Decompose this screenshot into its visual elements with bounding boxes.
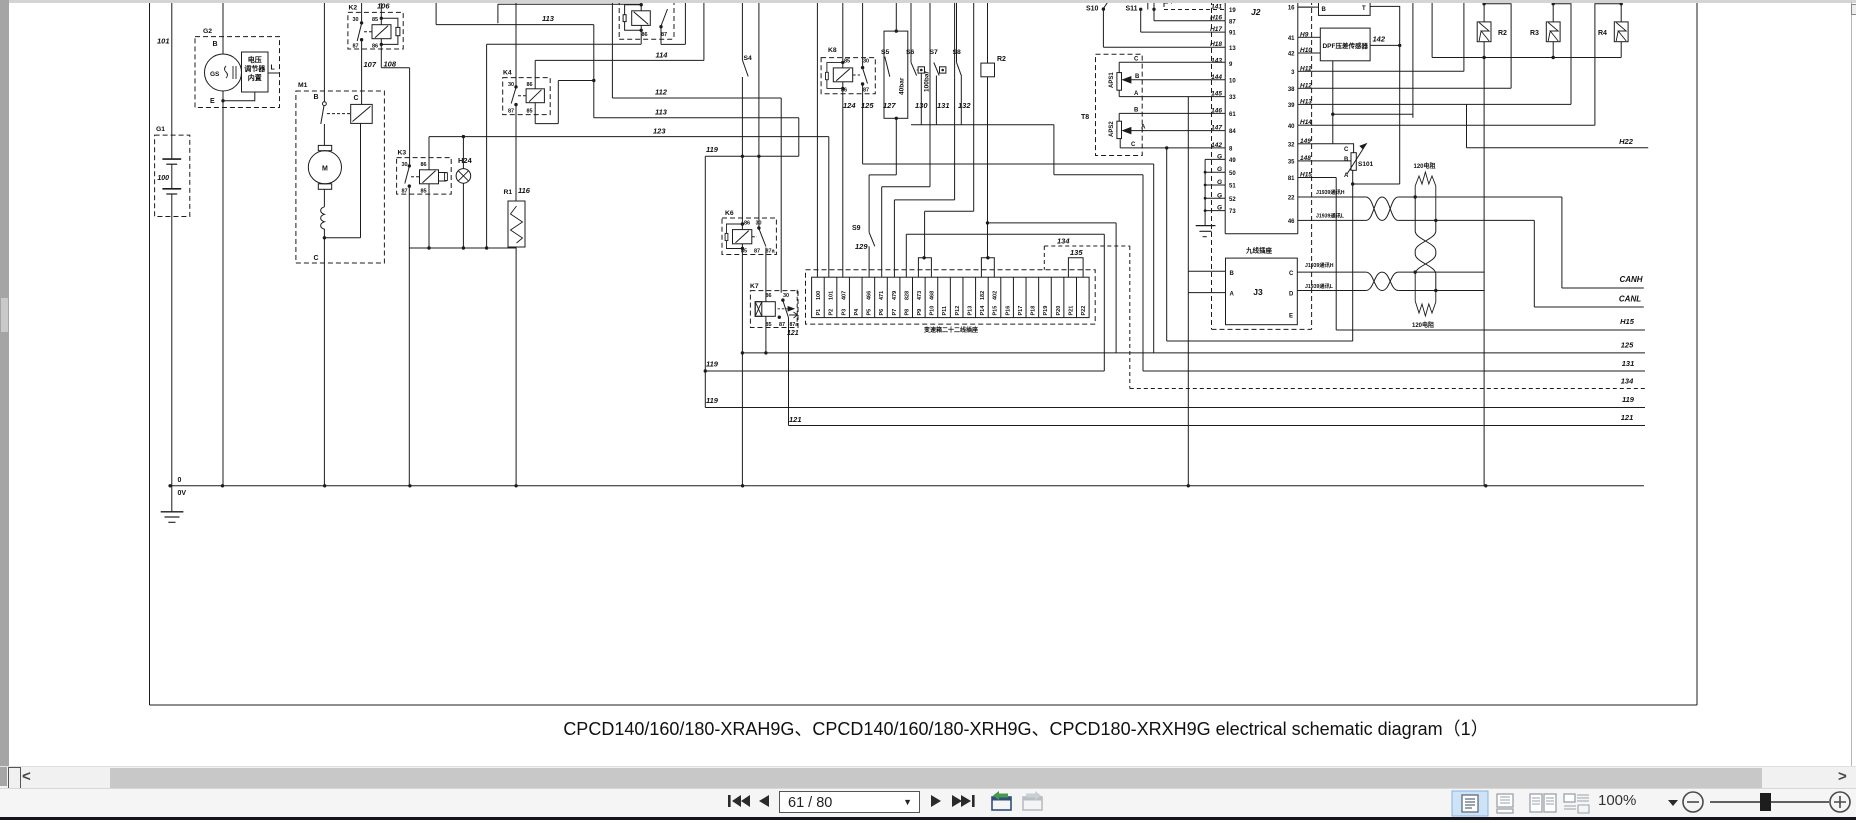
relay K6 switch bbox=[758, 156, 760, 228]
svg-text:41: 41 bbox=[1288, 36, 1295, 42]
wire S6 down bbox=[920, 73, 922, 125]
junction on 0V bus bbox=[1187, 484, 1190, 487]
svg-text:调节器: 调节器 bbox=[244, 64, 266, 73]
svg-text:116: 116 bbox=[518, 186, 531, 195]
J2 pin 3 stub bbox=[1298, 70, 1313, 72]
wire alternator E down to bus bbox=[222, 91, 224, 486]
svg-text:J1939通讯H: J1939通讯H bbox=[1305, 261, 1334, 269]
wire switch to motor bbox=[323, 124, 325, 145]
svg-text:100: 100 bbox=[157, 175, 169, 182]
terminating resistor 120ohm upper bbox=[1415, 172, 1436, 220]
connector cell divider bbox=[1050, 277, 1052, 317]
connector cell divider bbox=[975, 277, 977, 317]
wire jog down bbox=[1053, 125, 1055, 175]
connector cell divider bbox=[1038, 277, 1040, 317]
svg-text:P18: P18 bbox=[1031, 306, 1037, 316]
relay K3 switch bbox=[408, 164, 411, 167]
row pin81 H15 to right edge bbox=[1313, 177, 1336, 179]
svg-text:30: 30 bbox=[402, 162, 408, 168]
svg-text:61: 61 bbox=[1229, 112, 1236, 118]
riser 119 left bbox=[704, 156, 706, 407]
wire 107 to starter contactor bbox=[361, 40, 363, 105]
resistor R2 bbox=[1477, 22, 1491, 42]
resistor R4 wire bottom bbox=[1620, 42, 1622, 58]
CAN twist 2 bbox=[1366, 272, 1398, 290]
pressure switch 40bar box bbox=[884, 31, 908, 118]
line 119 second bbox=[705, 370, 1104, 372]
svg-text:K4: K4 bbox=[503, 70, 512, 77]
battery G1 cell1 plates bbox=[162, 158, 181, 160]
J3 CAN pair cont bbox=[1398, 271, 1484, 273]
svg-text:0: 0 bbox=[178, 477, 182, 484]
line 113 upper bbox=[435, 0, 437, 25]
APS2 potentiometer bbox=[1117, 121, 1122, 138]
line 125 right end bbox=[1188, 340, 1352, 342]
wire 106 from top bbox=[380, 0, 382, 18]
link to riser 1412 bbox=[1333, 113, 1413, 115]
relay K4 coil bbox=[526, 89, 544, 103]
sensor S101 arrow bbox=[1347, 149, 1363, 174]
svg-text:142: 142 bbox=[1373, 35, 1386, 44]
svg-text:变速箱二十二线插座: 变速箱二十二线插座 bbox=[924, 326, 978, 334]
svg-text:107: 107 bbox=[364, 60, 377, 69]
switch S10 bbox=[1102, 7, 1105, 10]
wire 758.9 from top bbox=[758, 0, 760, 156]
svg-text:46: 46 bbox=[1288, 219, 1295, 225]
svg-text:J1939通讯L: J1939通讯L bbox=[1316, 211, 1345, 219]
connector cell divider bbox=[836, 277, 838, 317]
lamp H24 bbox=[456, 169, 471, 184]
svg-text:22: 22 bbox=[1288, 196, 1295, 202]
APS1 wiper B to J2 pin 10 bbox=[1123, 77, 1132, 83]
svg-text:40: 40 bbox=[1288, 124, 1295, 130]
svg-text:C: C bbox=[354, 95, 359, 102]
wire to P1 from top bbox=[816, 0, 818, 277]
relay K1 coil bbox=[632, 11, 651, 26]
svg-text:87: 87 bbox=[754, 249, 760, 255]
line H15 long bbox=[1336, 329, 1645, 331]
connector cell divider bbox=[937, 277, 939, 317]
CANL step down bbox=[1533, 220, 1535, 307]
wire from T sensor bbox=[1370, 6, 1400, 184]
pressure sensor S7 box bbox=[940, 67, 946, 73]
line 131 right bbox=[1143, 370, 1645, 372]
socket J3 box bbox=[1226, 258, 1298, 325]
svg-text:K2: K2 bbox=[349, 5, 358, 12]
svg-text:87a: 87a bbox=[790, 322, 799, 328]
svg-text:473: 473 bbox=[917, 291, 923, 300]
line to bundle right 222 bbox=[988, 222, 1117, 224]
connector cell divider bbox=[1075, 277, 1077, 317]
wire from top 954 bbox=[954, 0, 956, 200]
svg-text:100: 100 bbox=[816, 291, 822, 300]
connector cell divider bbox=[874, 277, 876, 317]
relay K7 switch with arrow bbox=[781, 298, 784, 301]
svg-text:E: E bbox=[210, 98, 215, 105]
starter motor M bbox=[318, 145, 331, 150]
relay K1 switch bbox=[659, 25, 662, 28]
wire S9 to connector P5 bbox=[868, 246, 870, 277]
link 142 wire to S101 column bbox=[1353, 183, 1400, 185]
local bus under K3 bbox=[409, 247, 516, 249]
svg-text:S11: S11 bbox=[1126, 6, 1138, 13]
relay K4 box bbox=[503, 78, 551, 115]
wire K3-87 down bbox=[408, 186, 410, 248]
continuation bracket left of connector bbox=[796, 290, 798, 322]
svg-text:828: 828 bbox=[904, 291, 910, 300]
row pin3 H11 long bbox=[1313, 70, 1464, 72]
line from S6 S7 S8 to right bbox=[911, 124, 1054, 126]
wire B into alternator bbox=[222, 0, 224, 54]
svg-text:P7: P7 bbox=[892, 309, 898, 316]
wire from top to K4-30 bbox=[515, 0, 517, 87]
junction on 0V bus bbox=[408, 484, 411, 487]
switch S5 blade bbox=[885, 57, 890, 77]
svg-text:120电阻: 120电阻 bbox=[1412, 321, 1434, 329]
svg-text:K8: K8 bbox=[828, 47, 837, 54]
svg-text:131: 131 bbox=[1622, 359, 1635, 368]
DPF bottom wire bbox=[1332, 61, 1334, 144]
svg-text:146: 146 bbox=[1211, 107, 1222, 114]
svg-text:J1939通讯H: J1939通讯H bbox=[1316, 188, 1345, 196]
svg-text:A: A bbox=[1134, 91, 1139, 97]
J2 pin 41 stub bbox=[1298, 36, 1313, 38]
connector cell divider bbox=[848, 277, 850, 317]
svg-text:P22: P22 bbox=[1081, 306, 1087, 316]
svg-text:119: 119 bbox=[706, 360, 719, 369]
riser 1116 from line 222 bbox=[1115, 223, 1117, 353]
svg-text:468: 468 bbox=[930, 291, 936, 300]
resistor R1 bbox=[508, 201, 525, 247]
sensor S101 body bbox=[1351, 153, 1356, 171]
svg-text:40bar: 40bar bbox=[899, 77, 906, 95]
relay K2 coil feed bbox=[380, 17, 383, 20]
svg-text:P5: P5 bbox=[867, 309, 873, 316]
svg-text:GS: GS bbox=[210, 71, 220, 78]
wire S101 A down bbox=[1352, 170, 1354, 341]
svg-text:91: 91 bbox=[1229, 31, 1236, 37]
wire J2 pin35 to S101 B bbox=[1313, 160, 1351, 162]
relay K3 suppression resistor bbox=[439, 173, 447, 182]
svg-text:R2: R2 bbox=[997, 56, 1006, 63]
svg-text:132: 132 bbox=[958, 101, 971, 110]
wire K7-87 to 121 line bbox=[788, 318, 790, 426]
riser 1188 bbox=[1187, 97, 1189, 486]
connector cell divider bbox=[1012, 277, 1014, 317]
row pin38 H12 long bbox=[1313, 87, 1511, 89]
svg-text:T8: T8 bbox=[1081, 114, 1089, 121]
svg-text:100bar: 100bar bbox=[924, 71, 931, 92]
svg-text:49: 49 bbox=[1229, 158, 1236, 164]
voltage regulator box (Chinese: built-in regulator) bbox=[242, 52, 269, 92]
drawing frame left border bbox=[149, 3, 151, 705]
relay K2 pin 30 wire bbox=[361, 0, 363, 23]
svg-text:电压: 电压 bbox=[248, 55, 262, 64]
svg-text:16: 16 bbox=[1288, 6, 1295, 12]
drawing frame bottom border bbox=[150, 704, 1698, 706]
connector cell divider bbox=[1025, 277, 1027, 317]
svg-text:R1: R1 bbox=[504, 189, 513, 196]
transmission connector dashed box bbox=[806, 270, 1096, 324]
row pin40 H14 long bbox=[1313, 124, 1595, 126]
line 121 long bbox=[789, 425, 1646, 427]
svg-text:3: 3 bbox=[1291, 70, 1295, 76]
svg-text:73: 73 bbox=[1229, 209, 1236, 215]
line 119 top bbox=[705, 155, 799, 157]
resistor R3 bbox=[1546, 22, 1560, 42]
svg-text:30: 30 bbox=[863, 59, 869, 65]
bus risers bbox=[1431, 0, 1433, 58]
J2 pin 81 stub bbox=[1298, 177, 1313, 179]
svg-text:P12: P12 bbox=[955, 306, 961, 316]
svg-text:123: 123 bbox=[653, 127, 666, 136]
pressure sensor S6 box bbox=[918, 67, 924, 73]
junction on 0V bus bbox=[168, 484, 171, 487]
CAN vertical twist bbox=[1415, 197, 1436, 274]
dashed link switch-contactor bbox=[327, 113, 351, 115]
svg-text:B: B bbox=[213, 41, 218, 48]
svg-text:182: 182 bbox=[980, 291, 986, 300]
svg-text:125: 125 bbox=[861, 101, 874, 110]
svg-text:144: 144 bbox=[1211, 74, 1222, 81]
svg-text:87: 87 bbox=[508, 109, 514, 115]
svg-text:A: A bbox=[1141, 125, 1146, 131]
svg-text:P4: P4 bbox=[854, 308, 860, 316]
relay K6 coil bbox=[733, 230, 752, 244]
ground symbol bbox=[171, 486, 173, 512]
transmission connector body bbox=[812, 277, 1090, 317]
svg-text:P6: P6 bbox=[879, 309, 885, 316]
connector cell divider bbox=[1063, 277, 1065, 317]
svg-text:S5: S5 bbox=[881, 49, 890, 56]
connector bridge P21-P22 (135) bbox=[1068, 258, 1083, 277]
svg-text:S6: S6 bbox=[906, 49, 915, 56]
DPF differential pressure sensor box bbox=[1320, 28, 1370, 61]
relay K1 switch wire bbox=[660, 27, 662, 45]
svg-text:101: 101 bbox=[829, 291, 835, 300]
svg-text:T: T bbox=[1362, 6, 1366, 12]
svg-text:130: 130 bbox=[915, 101, 928, 110]
APS2 pin B wire to J2 pin 61 bbox=[1118, 113, 1120, 121]
svg-text:86: 86 bbox=[744, 221, 750, 227]
svg-text:51: 51 bbox=[1229, 184, 1236, 190]
relay K8 switch 125 bbox=[861, 66, 864, 69]
row pin39 H13 long bbox=[1313, 103, 1571, 105]
svg-text:R4: R4 bbox=[1598, 30, 1607, 37]
resistor R3 wire top bbox=[1552, 0, 1554, 22]
svg-text:P20: P20 bbox=[1056, 306, 1062, 316]
svg-text:479: 479 bbox=[892, 291, 898, 300]
svg-text:113: 113 bbox=[542, 14, 555, 23]
wire B to starter switch bbox=[323, 0, 325, 102]
resistor R4 bbox=[1614, 22, 1628, 42]
svg-text:84: 84 bbox=[1229, 129, 1236, 135]
connector bridge P9-P10 bbox=[918, 258, 931, 277]
wire R1 to 0V bus bbox=[515, 247, 517, 486]
J2 ground pins common bbox=[1205, 158, 1225, 160]
svg-text:P13: P13 bbox=[967, 306, 973, 316]
APS1 pin C wire to J2 pin 9 bbox=[1118, 62, 1120, 72]
wire starter to contactor bbox=[324, 237, 360, 239]
APS1 potentiometer bbox=[1117, 73, 1122, 91]
battery G1 box bbox=[155, 135, 190, 216]
junction on 0V bus bbox=[323, 484, 326, 487]
wire K4 coil top to 114 line bbox=[534, 60, 536, 88]
dashed line 134 into P19 bbox=[1043, 246, 1045, 270]
jog to connector P7 bbox=[894, 199, 954, 201]
svg-text:30: 30 bbox=[783, 293, 789, 299]
svg-text:407: 407 bbox=[841, 291, 847, 300]
svg-text:P9: P9 bbox=[917, 309, 923, 316]
svg-text:125: 125 bbox=[1621, 341, 1634, 350]
svg-text:B: B bbox=[1135, 74, 1140, 80]
alternator G2 box bbox=[195, 37, 280, 108]
svg-text:K3: K3 bbox=[398, 150, 407, 157]
dashed 134 riser bbox=[1129, 246, 1131, 389]
R3 link to J2 pin39 row bbox=[1553, 4, 1571, 105]
svg-text:106: 106 bbox=[377, 2, 390, 11]
svg-text:466: 466 bbox=[867, 291, 873, 300]
line right from riser 1166 bbox=[1167, 340, 1353, 342]
svg-text:DPF压差传感器: DPF压差传感器 bbox=[1322, 41, 1368, 50]
svg-text:G1: G1 bbox=[156, 126, 165, 133]
line 112 bbox=[611, 0, 613, 98]
svg-text:121: 121 bbox=[789, 415, 802, 424]
svg-text:H18: H18 bbox=[1210, 41, 1222, 48]
svg-text:85: 85 bbox=[527, 109, 533, 115]
CANH step down bbox=[1561, 197, 1563, 288]
svg-text:39: 39 bbox=[1288, 103, 1295, 109]
alternator generator circle GS bbox=[205, 54, 242, 91]
svg-text:P1: P1 bbox=[816, 309, 822, 316]
svg-text:129: 129 bbox=[855, 242, 868, 251]
J2 pin 40 stub bbox=[1298, 124, 1313, 126]
J2 pin 39 stub bbox=[1298, 103, 1313, 105]
line 123 bbox=[429, 136, 829, 138]
svg-text:S10: S10 bbox=[1086, 6, 1099, 13]
switch S8 wire and blade bbox=[956, 0, 958, 62]
starter M1 box bbox=[296, 91, 385, 263]
relay K1 coil top wire bbox=[640, 0, 642, 11]
starter series coil bbox=[323, 189, 325, 207]
svg-text:87: 87 bbox=[1229, 19, 1236, 25]
svg-text:M: M bbox=[322, 166, 328, 173]
svg-text:B: B bbox=[1134, 108, 1139, 114]
svg-text:K7: K7 bbox=[750, 283, 759, 290]
svg-text:30: 30 bbox=[353, 17, 359, 23]
branch at 341 bbox=[1167, 340, 1189, 342]
starter switch blade bbox=[321, 106, 324, 125]
line H22 bbox=[1467, 147, 1649, 149]
svg-text:119: 119 bbox=[706, 145, 719, 154]
APS2 pin C wire to J2 pin 8 bbox=[1119, 139, 1121, 148]
svg-text:114: 114 bbox=[656, 51, 669, 60]
svg-text:30: 30 bbox=[508, 82, 514, 88]
line 125 bbox=[742, 352, 1645, 354]
svg-text:50: 50 bbox=[1229, 171, 1236, 177]
wire S10 to J2 pin 13 bbox=[1102, 9, 1104, 47]
ECU dashed enclosure bbox=[1211, 0, 1213, 329]
svg-text:81: 81 bbox=[1288, 176, 1295, 182]
wire 108 bbox=[380, 38, 382, 67]
svg-text:471: 471 bbox=[879, 291, 885, 300]
riser to top right of K1 bbox=[684, 0, 686, 44]
relay K3 coil wires bbox=[428, 137, 430, 170]
relay K2 box bbox=[348, 12, 403, 49]
svg-text:19: 19 bbox=[1229, 8, 1236, 14]
resistor R2 wire top bbox=[1483, 0, 1485, 22]
connector cell divider bbox=[1000, 277, 1002, 317]
R4 link to J2 pin40 row bbox=[1595, 4, 1621, 126]
svg-text:0V: 0V bbox=[178, 490, 187, 497]
wire 123 down to connector P2 bbox=[828, 137, 830, 278]
wire starter to 0V bus bbox=[323, 238, 325, 486]
svg-text:CANL: CANL bbox=[1619, 295, 1641, 304]
svg-text:135: 135 bbox=[1070, 248, 1083, 257]
resistor R2 small bbox=[987, 0, 989, 63]
connector cell divider bbox=[861, 277, 863, 317]
switch S4 blade bbox=[742, 60, 748, 77]
svg-text:86: 86 bbox=[421, 162, 427, 168]
ground bus 0V bbox=[170, 485, 1644, 487]
terminating resistor 120ohm lower bbox=[1415, 272, 1436, 316]
APS1 pin A wire to J2 pin 33 bbox=[1118, 90, 1120, 96]
svg-text:145: 145 bbox=[1211, 91, 1222, 98]
switch S11 bbox=[1139, 8, 1142, 11]
relay K8 loop resistor bbox=[827, 62, 843, 88]
svg-text:85: 85 bbox=[372, 17, 378, 23]
CAN pair to terminator bbox=[1398, 196, 1562, 198]
svg-text:86: 86 bbox=[527, 82, 533, 88]
junction on 0V bus bbox=[221, 484, 224, 487]
relay K1 coil loop and resistor bbox=[625, 5, 642, 31]
svg-text:127: 127 bbox=[883, 101, 896, 110]
wire R2 down bbox=[987, 77, 989, 223]
svg-text:P17: P17 bbox=[1018, 306, 1024, 316]
wire down to connector P8 bbox=[905, 234, 907, 277]
junction on 0V bus bbox=[741, 484, 744, 487]
svg-text:B: B bbox=[1344, 157, 1349, 163]
line 234 from P8 to bundle bbox=[906, 233, 1104, 235]
svg-text:R2: R2 bbox=[1498, 30, 1507, 37]
J2 pin41 42 stubs to DPF bbox=[1313, 36, 1320, 38]
wire J3 B feed bbox=[1188, 270, 1225, 272]
connector cell divider bbox=[886, 277, 888, 317]
wire E from alternator bbox=[223, 92, 255, 101]
svg-text:E: E bbox=[1289, 314, 1293, 320]
svg-text:H15: H15 bbox=[1620, 317, 1635, 326]
svg-text:S9: S9 bbox=[852, 225, 861, 232]
svg-text:P10: P10 bbox=[930, 306, 936, 316]
line from K8-87 to right bbox=[863, 163, 1154, 165]
wire J3 A feed bbox=[1188, 292, 1225, 294]
J2 pin 46 stub bbox=[1298, 219, 1313, 221]
svg-text:87a: 87a bbox=[766, 249, 776, 255]
svg-text:H22: H22 bbox=[1619, 137, 1634, 146]
svg-text:R3: R3 bbox=[1530, 30, 1539, 37]
wire 40bar top bbox=[895, 0, 897, 31]
svg-text:内置: 内置 bbox=[248, 73, 262, 82]
wire S11 to J2 pin 91 bbox=[1140, 9, 1142, 32]
relay K8 coil bbox=[833, 68, 852, 82]
svg-text:142: 142 bbox=[1211, 142, 1222, 149]
dashed line 134 long bbox=[1130, 388, 1645, 390]
svg-text:42: 42 bbox=[1288, 52, 1295, 58]
relay K8 box bbox=[821, 58, 875, 94]
J2 pin 38 stub bbox=[1298, 87, 1313, 89]
svg-text:113: 113 bbox=[655, 108, 668, 117]
resistor R2 wire bottom bbox=[1483, 42, 1485, 58]
